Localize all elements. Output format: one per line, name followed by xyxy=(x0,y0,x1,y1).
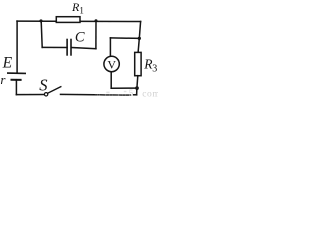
switch S blade xyxy=(48,87,61,94)
wire bottom dash-dot segment xyxy=(94,94,131,96)
wire voltmeter branch horizontal xyxy=(110,37,139,40)
node junction dot bottom xyxy=(135,86,139,90)
svg-text:5: 5 xyxy=(129,88,134,98)
wire bottom middle xyxy=(61,93,95,95)
svg-text:1: 1 xyxy=(79,6,84,16)
watermark speck xyxy=(124,91,127,92)
svg-text:3: 3 xyxy=(152,63,157,74)
node junction dot right xyxy=(95,19,98,22)
wire capacitor loop right vertical xyxy=(95,21,97,49)
wire left vertical xyxy=(16,21,18,73)
voltmeter U1 circle xyxy=(104,56,119,71)
capacitor C right plate xyxy=(70,40,72,55)
capacitor C left plate xyxy=(66,40,68,55)
resistor R3 body xyxy=(135,52,141,75)
svg-text:C: C xyxy=(75,30,85,46)
svg-text:V: V xyxy=(107,57,116,71)
battery E short plate xyxy=(12,79,21,81)
wire capacitor right lead xyxy=(72,48,96,49)
svg-text:S: S xyxy=(39,76,47,95)
wire bottom right stub xyxy=(134,94,137,96)
wire top horizontal xyxy=(17,20,141,22)
wire capacitor loop left vertical xyxy=(41,21,42,47)
resistor R1 body xyxy=(56,17,80,23)
battery E long plate xyxy=(8,72,25,74)
wire right vertical xyxy=(138,22,141,53)
wire capacitor loop bottom left xyxy=(42,46,67,48)
node junction dot left xyxy=(39,19,42,22)
watermark speck xyxy=(106,92,109,94)
wire voltmeter bottom lead xyxy=(110,72,112,88)
svg-text:com: com xyxy=(142,90,158,98)
wire voltmeter top lead xyxy=(109,38,111,56)
switch S pivot circle xyxy=(44,93,47,96)
wire R3 bottom lead xyxy=(136,76,139,88)
wire junction to R3 bottom xyxy=(136,88,138,95)
node junction dot voltmeter/R3 top xyxy=(138,37,141,40)
wire bottom left xyxy=(16,94,44,96)
wire battery negative lead xyxy=(15,81,17,95)
svg-text:E: E xyxy=(2,55,13,72)
wire voltmeter bottom horizontal xyxy=(111,87,137,89)
